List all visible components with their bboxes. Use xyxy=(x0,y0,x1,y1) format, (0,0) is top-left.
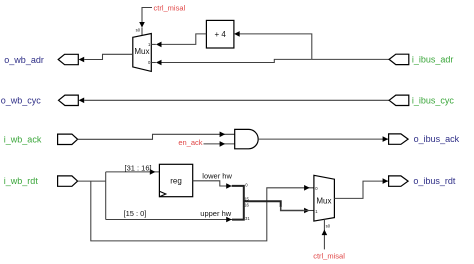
output port o_wb_cyc xyxy=(1,95,79,106)
svg-text:upper hw: upper hw xyxy=(200,209,231,218)
svg-text:i_wb_rdt: i_wb_rdt xyxy=(4,176,39,186)
wire: i_ibus_adr net xyxy=(156,31,389,65)
svg-text:o_ibus_rdt: o_ibus_rdt xyxy=(413,176,456,186)
svg-text:o_wb_cyc: o_wb_cyc xyxy=(1,96,42,106)
wire: i_wb_rdt trunk xyxy=(78,180,106,182)
svg-text:ctrl_misal: ctrl_misal xyxy=(154,4,186,13)
wire: AND output to o_ibus_ack xyxy=(258,136,388,142)
mux U1 xyxy=(133,34,156,72)
svg-text:s0: s0 xyxy=(136,27,141,32)
bus join xyxy=(232,182,314,221)
svg-text:lower hw: lower hw xyxy=(202,172,232,181)
wire: i_wb_ack to AND gate xyxy=(78,132,235,140)
svg-text:31: 31 xyxy=(245,216,250,221)
wire: mux U2 output to o_ibus_rdt xyxy=(334,178,388,198)
output port o_ibus_rdt xyxy=(389,176,456,186)
input port i_ibus_adr xyxy=(389,54,453,64)
svg-text:+ 4: + 4 xyxy=(215,30,227,39)
output port o_ibus_ack xyxy=(389,134,460,144)
svg-text:Mux: Mux xyxy=(316,197,331,206)
input port i_wb_ack xyxy=(4,134,78,144)
svg-text:[15 : 0]: [15 : 0] xyxy=(124,209,147,218)
register reg xyxy=(159,164,192,196)
mux U2 xyxy=(314,175,335,221)
net label ctrl_misal (top) xyxy=(136,4,186,36)
net label ctrl_misal (bottom) xyxy=(313,219,345,260)
wire: split tee xyxy=(105,172,107,220)
svg-text:o_wb_adr: o_wb_adr xyxy=(4,55,44,65)
net label en_ack xyxy=(178,138,234,147)
svg-text:o_ibus_ack: o_ibus_ack xyxy=(414,134,460,144)
wire: reg output (lower hw) xyxy=(193,172,233,219)
svg-text:i_wb_ack: i_wb_ack xyxy=(4,134,42,144)
svg-text:ctrl_misal: ctrl_misal xyxy=(313,251,345,260)
svg-text:i_ibus_cyc: i_ibus_cyc xyxy=(412,95,455,105)
wire: bypass to mux U2 pin 0 xyxy=(91,181,314,241)
wire: +4 output to mux U1 pin 1 xyxy=(156,34,207,47)
input port i_ibus_cyc xyxy=(389,95,454,105)
output port o_wb_adr xyxy=(4,54,78,65)
svg-text:reg: reg xyxy=(170,177,182,186)
AND gate xyxy=(235,129,259,148)
wire: mux U1 output to o_wb_adr xyxy=(79,54,133,62)
svg-text:Mux: Mux xyxy=(134,47,149,56)
input port i_wb_rdt xyxy=(4,176,78,186)
svg-text:en_ack: en_ack xyxy=(178,138,202,147)
svg-text:s0: s0 xyxy=(326,224,331,229)
svg-text:[31 : 16]: [31 : 16] xyxy=(125,163,152,172)
wire: i_ibus_cyc to o_wb_cyc xyxy=(79,98,390,104)
adder +4 xyxy=(206,20,234,48)
svg-text:16: 16 xyxy=(244,202,249,207)
svg-text:i_ibus_adr: i_ibus_adr xyxy=(412,54,454,64)
wire: [15:0] to join xyxy=(106,209,232,223)
wire: [31:16] to reg xyxy=(106,163,160,174)
